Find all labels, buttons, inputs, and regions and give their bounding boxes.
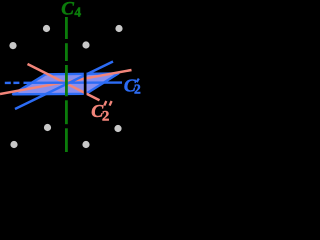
square plate (C4 plane) (13, 73, 119, 94)
C4 axis (green dashed vertical) (65, 17, 68, 152)
label C2' (blue) (124, 76, 141, 97)
lattice dot bottom front-left (10, 141, 17, 148)
vertical cell edge (black, occludes plate) (84, 68, 87, 97)
C2'' axis 1 (pink diagonal through left/right corners) (0, 70, 132, 94)
C2' axis 2 (blue horizontal, dashed hidden part at left) (5, 82, 21, 84)
lattice dot bottom back-left (44, 124, 51, 131)
svg-text:C: C (61, 0, 74, 20)
svg-text:4: 4 (74, 4, 81, 19)
lattice dot top front-left (9, 42, 16, 49)
lattice dot top back-right (115, 25, 122, 32)
C2' axis 1 (blue diagonal through edge midpoints) (15, 62, 113, 110)
lattice dot top back-left (43, 25, 50, 32)
label C2'' (pink) (91, 101, 111, 124)
lattice dot bottom front-right (82, 141, 89, 148)
svg-text:2: 2 (134, 82, 141, 97)
lattice dot bottom back-right (114, 125, 121, 132)
lattice dot top front-right (82, 41, 89, 48)
C2'' axis 2 (pink diagonal through front/back corners) (28, 64, 100, 100)
label C4 (green) (61, 0, 81, 20)
svg-text:2: 2 (102, 108, 110, 124)
